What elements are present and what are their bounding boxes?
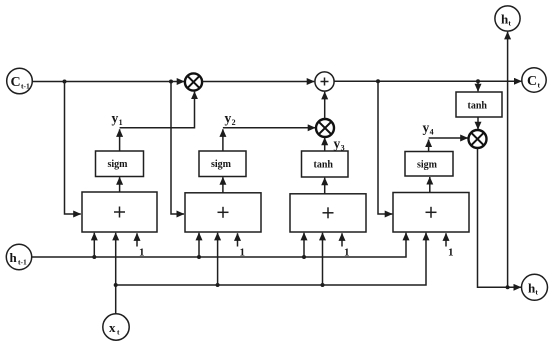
svg-text:x: x	[109, 320, 116, 335]
node junction on x row at x=217	[216, 283, 220, 287]
wire bias arrow into A4	[445, 233, 447, 246]
svg-text:sigm: sigm	[417, 160, 438, 171]
wire C row branch down into adder box A2	[171, 82, 184, 215]
add operator P1	[315, 72, 334, 91]
wire h row branch up into A2	[198, 233, 200, 257]
wire y4 into M3	[429, 137, 468, 139]
node ht bottom	[522, 274, 548, 300]
wire T3 output up into M2	[324, 138, 326, 151]
adder box A4	[393, 193, 469, 233]
svg-text:C: C	[11, 75, 21, 90]
svg-text:3: 3	[341, 144, 345, 153]
node junction on h row at x=304	[302, 255, 306, 259]
node junction on x row at x=115	[114, 283, 118, 287]
label y3	[334, 136, 345, 153]
adder box A1	[82, 192, 157, 232]
wire h row branch up into A3	[303, 233, 305, 257]
wire T5 to multiply M3	[477, 117, 479, 129]
svg-text:t-1: t-1	[21, 82, 30, 91]
wire M2 up into P1	[324, 92, 326, 119]
svg-text:sigm: sigm	[108, 159, 129, 170]
wire M3 output down and right to node ht bottom	[478, 148, 522, 287]
svg-text:C: C	[527, 74, 537, 89]
node junction on x row at x=322	[321, 283, 325, 287]
svg-text:2: 2	[232, 118, 236, 127]
adder box A2	[185, 193, 261, 232]
wire y2 line right into M2	[223, 127, 315, 129]
svg-text:1: 1	[240, 247, 246, 259]
wire bias arrow into A2	[237, 233, 239, 246]
wire S1 output up to y1 line	[119, 129, 121, 151]
wire P1 to node Ct	[334, 80, 521, 82]
wire adder A2 up into S2	[222, 177, 224, 193]
tanh box T3	[302, 151, 349, 177]
svg-text:1: 1	[344, 247, 350, 259]
node ht-1	[6, 244, 31, 269]
wire adder A3 up into T3	[324, 178, 326, 194]
adder box A3	[290, 194, 366, 232]
sigm box S4	[405, 152, 453, 177]
tanh box T5	[456, 92, 502, 117]
svg-text:y: y	[112, 111, 119, 126]
wire C row branch down into adder box A4	[378, 81, 392, 214]
svg-text:tanh: tanh	[314, 160, 334, 171]
node junction on C row at x=171	[169, 80, 173, 84]
wire adder A1 up into S1	[119, 177, 121, 192]
svg-text:1: 1	[448, 247, 454, 259]
svg-text:y: y	[334, 136, 341, 151]
multiply operator M2	[316, 119, 334, 137]
svg-text:y: y	[423, 120, 430, 135]
node junction on C row at x=378	[376, 79, 380, 83]
node junction on output row at x=507	[506, 285, 510, 289]
wire output branch up to node ht top	[507, 32, 509, 287]
wire M1 to add operator P1	[202, 81, 314, 83]
node Ct	[522, 68, 546, 92]
label y4	[423, 120, 434, 137]
wire C row branch down into tanh box T5	[477, 81, 479, 91]
wire bias arrow into A1	[136, 233, 138, 246]
wire y1 line right and up into M1	[120, 92, 195, 128]
wire sigm S4 output up	[428, 140, 430, 152]
node junction on h row at x=199	[197, 255, 201, 259]
wire xt up into A1	[115, 233, 117, 314]
svg-text:1: 1	[119, 118, 123, 127]
wire C row branch down into adder box A1	[65, 82, 81, 215]
wire x row branch up into A2	[217, 233, 219, 285]
node xt	[103, 314, 129, 340]
node Ct-1	[7, 68, 33, 94]
svg-text:4: 4	[430, 128, 434, 137]
node junction on h row at x=94	[92, 255, 96, 259]
node junction on C row at x=478	[476, 79, 480, 83]
node junction on C row at x=64	[63, 80, 67, 84]
wire h row branch up into A1	[93, 233, 95, 257]
svg-text:h: h	[10, 250, 18, 265]
svg-text:t-1: t-1	[18, 258, 27, 267]
wire Ct-1 to multiply M1	[32, 81, 184, 83]
wire x row right and up into A4	[116, 233, 426, 285]
svg-text:sigm: sigm	[211, 159, 232, 170]
sigm box S1	[96, 151, 144, 177]
wire bias arrow into A3	[341, 233, 343, 246]
node ht top	[495, 6, 520, 31]
label y1	[112, 111, 123, 128]
wire S2 output up to y2 line	[222, 129, 224, 151]
sigm box S2	[199, 151, 246, 177]
svg-text:1: 1	[139, 247, 145, 259]
wire h row from ht-1 right and up into A4	[32, 233, 406, 257]
wire adder A4 up into S4	[429, 177, 431, 193]
svg-text:y: y	[225, 111, 232, 126]
svg-text:tanh: tanh	[468, 101, 488, 112]
multiply operator M1	[185, 73, 202, 90]
wire x row branch up into A3	[322, 233, 324, 285]
label y2	[225, 111, 236, 128]
multiply operator M3	[469, 130, 487, 148]
